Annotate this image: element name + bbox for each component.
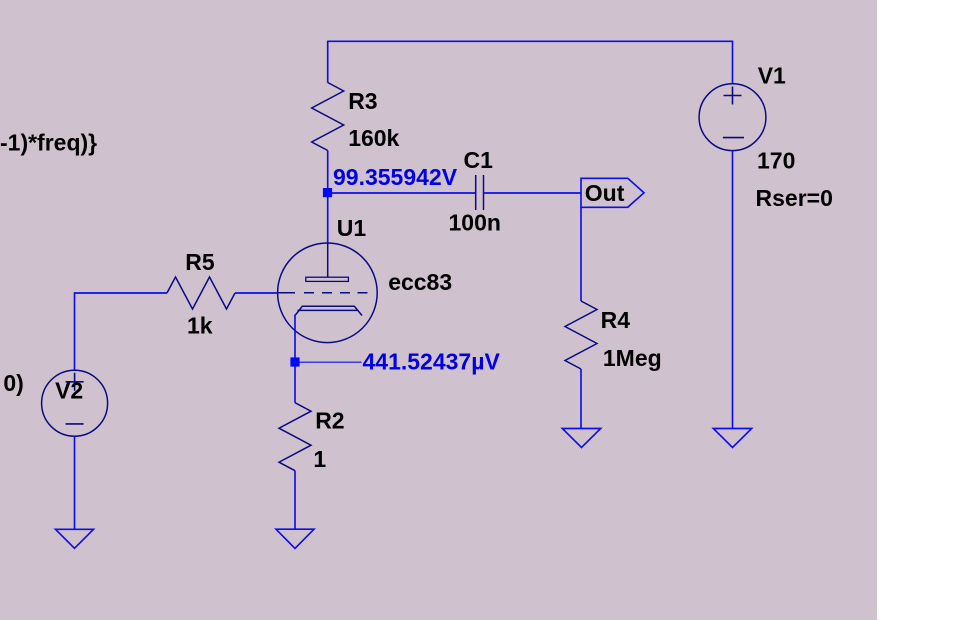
svg-text:V1: V1: [758, 63, 786, 89]
svg-text:0): 0): [3, 370, 23, 396]
resistor R4: [565, 301, 597, 369]
svg-text:ecc83: ecc83: [388, 269, 452, 295]
svg-text:-1)*freq)}: -1)*freq)}: [0, 129, 97, 155]
wire: R2 to ground: [294, 471, 296, 530]
svg-text:160k: 160k: [348, 125, 399, 151]
ground (R4): [562, 429, 600, 448]
resistor R3: [312, 83, 344, 151]
wire: R3 top lead: [327, 41, 329, 83]
svg-text:U1: U1: [337, 215, 367, 241]
wire: V2 bottom to ground: [74, 436, 76, 529]
wire: top bus from R3 to V1: [328, 40, 733, 42]
wire: cathode down through node to R2: [294, 315, 296, 403]
wire: C1 right plate to Out flag: [484, 192, 582, 194]
svg-text:R3: R3: [348, 88, 377, 114]
svg-text:C1: C1: [464, 147, 494, 173]
svg-text:100n: 100n: [449, 210, 501, 236]
triode U1: [278, 243, 378, 343]
voltage source V1: [699, 84, 766, 151]
voltage source V2: [42, 370, 108, 436]
svg-text:V2: V2: [55, 378, 83, 404]
ground (V1): [713, 429, 751, 448]
svg-text:Out: Out: [585, 180, 625, 206]
ground (V2): [56, 529, 94, 548]
wire: R5 to tube grid: [235, 292, 278, 294]
svg-text:R2: R2: [315, 408, 344, 434]
wire: V2 top up and right to R5: [75, 293, 168, 370]
resistor R5: [167, 277, 235, 309]
svg-text:Rser=0: Rser=0: [756, 185, 833, 211]
node junction at anode (blue square): [323, 188, 332, 197]
net flag Out: [581, 178, 644, 207]
wire: V1 bottom to ground: [732, 151, 734, 429]
svg-text:R4: R4: [601, 307, 631, 333]
wire: R3 bottom through node down to tube anode: [327, 151, 329, 244]
wire: node to C1 left plate: [328, 192, 476, 194]
svg-text:1: 1: [313, 446, 326, 472]
svg-text:1Meg: 1Meg: [603, 345, 662, 371]
svg-text:1k: 1k: [187, 312, 213, 338]
svg-text:99.355942V: 99.355942V: [333, 164, 458, 190]
svg-text:170: 170: [757, 148, 795, 174]
capacitor C1: [476, 175, 484, 210]
node junction at cathode (blue square): [290, 357, 299, 366]
svg-text:441.52437µV: 441.52437µV: [363, 348, 501, 374]
resistor R2: [279, 403, 311, 471]
wire: V1 top lead: [732, 41, 734, 84]
svg-text:R5: R5: [185, 249, 215, 275]
ground (R2): [276, 529, 314, 548]
wire: leader to cathode voltage label: [295, 361, 362, 363]
wire: Out node down to R4: [580, 207, 582, 301]
wire: R4 to ground: [580, 369, 582, 429]
